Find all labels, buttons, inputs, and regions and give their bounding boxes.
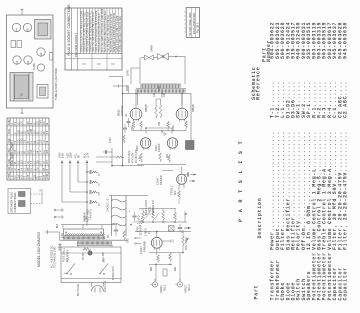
svg-text:BLK: BLK (57, 223, 59, 228)
speaker dual cone symbol (158, 53, 169, 60)
potentiometer treble (152, 212, 155, 221)
signal arrow lower right (184, 227, 191, 229)
svg-text:Description: Description (257, 198, 263, 239)
wire antenna lead top (21, 9, 23, 16)
svg-text:FUSE 2A: FUSE 2A (63, 252, 66, 262)
junction dots extra (155, 264, 157, 266)
svg-text:215: 215 (34, 129, 36, 134)
tube V2 layout circle (24, 56, 32, 64)
table dashes (82, 63, 86, 65)
tube V3a 12AX7 phase inverter (140, 138, 150, 148)
svg-text:PLUG & SOCKET CONNECTIONS: PLUG & SOCKET CONNECTIONS (67, 4, 71, 56)
resistor preamp cathode (157, 255, 160, 263)
switch SW-1 polarity (67, 264, 75, 274)
output transformer T-2 secondary winding (141, 83, 181, 85)
wire right rail (190, 93, 192, 150)
svg-text:V1: V1 (15, 60, 19, 64)
svg-text:470K: 470K (131, 125, 134, 131)
capacitor right of choke (133, 215, 137, 217)
wire screen bus (156, 98, 161, 100)
svg-text:SPEAKER PLUG: SPEAKER PLUG (10, 192, 14, 213)
power transformer layout square (35, 20, 52, 40)
svg-text:5V: 5V (107, 235, 110, 238)
svg-text:TUBE & PART LOCATION: TUBE & PART LOCATION (54, 68, 58, 100)
resistor plate V3b (159, 153, 162, 162)
resistor tone right (174, 213, 177, 222)
small resistor on bus (116, 156, 124, 158)
capacitor resistor pair level 3 (89, 190, 91, 194)
svg-text:1 MEG: 1 MEG (145, 228, 148, 236)
svg-text:NO. 1: NO. 1 (164, 284, 167, 291)
wire B+ rail horizontal (123, 92, 192, 94)
svg-text:GND: GND (47, 173, 49, 178)
arrow tone right (184, 213, 188, 215)
svg-text:470K: 470K (172, 125, 175, 131)
svg-text:270: 270 (18, 139, 20, 144)
tube V3b 12AX7 phase inverter (167, 138, 177, 148)
wire driver grid stub (162, 169, 173, 171)
svg-text:PIN2: PIN2 (9, 138, 11, 144)
svg-text:PIN1: PIN1 (9, 128, 11, 134)
svg-text:GND: GND (41, 120, 43, 125)
secondary leads into box (77, 245, 79, 247)
resistor tail (168, 155, 171, 163)
tube V5 layout circle (23, 23, 31, 31)
wire preamp mid bus (149, 252, 183, 254)
wire grid drop to jack 1 (155, 264, 157, 281)
resistor right of transformer (123, 231, 126, 240)
resistor cathode V5 (185, 122, 188, 129)
junction dots rail (111, 165, 113, 167)
tube V5 6BQ5 output (176, 108, 188, 120)
resistor driver cathode (178, 191, 181, 199)
resistor in switch box (83, 248, 91, 251)
resistor screen V4 (155, 105, 158, 118)
svg-text:PILOT: PILOT (82, 252, 85, 260)
capacitor line filter (114, 229, 118, 231)
svg-text:V4: V4 (15, 28, 19, 32)
table column line (65, 53, 122, 55)
capacitor coupling V4 grid (127, 121, 131, 123)
svg-text:T-1: T-1 (81, 224, 85, 228)
dash mark near choke (139, 225, 141, 227)
svg-text:OUTPUT: OUTPUT (120, 105, 124, 116)
svg-text:INPUT: INPUT (184, 285, 188, 293)
plug and socket connections table (65, 8, 122, 70)
svg-text:MODEL 1482 CHASSIS: MODEL 1482 CHASSIS (37, 231, 41, 267)
svg-text:6BQ5: 6BQ5 (191, 104, 195, 112)
wire V3 plates (145, 128, 147, 134)
speaker connection note box (8, 189, 31, 214)
svg-text:325: 325 (18, 174, 20, 179)
wire preamp bottom bus (149, 263, 172, 265)
svg-text:BASS AMPLIFIER: BASS AMPLIFIER (192, 13, 196, 34)
svg-text:FUSE: FUSE (32, 63, 36, 70)
power transformer secondary hatch (78, 241, 112, 244)
stamp tick marks (184, 11, 185, 13)
choke L-1 right rail (125, 196, 127, 237)
wire branch 3 down (77, 161, 79, 182)
dashed leader wires (31, 193, 43, 195)
resistor tone mid (162, 212, 165, 221)
wire driver plate (181, 167, 183, 174)
capacitor resistor pair level 2 (89, 180, 91, 184)
svg-text:VOL 1 MEG: VOL 1 MEG (185, 237, 188, 250)
wire tone bus upper (139, 208, 176, 210)
wire from socket table down (109, 76, 123, 78)
svg-text:Filter, 20-20-20-475V.........: Filter, 20-20-20-475V........... (343, 131, 349, 250)
wire speaker stub left (131, 67, 140, 69)
capacitor grid feed V4 (123, 127, 127, 129)
small component above preamp 1 (169, 226, 175, 232)
small component above preamp 2 (178, 227, 182, 229)
svg-text:470K: 470K (109, 137, 112, 143)
signal arrow top right (185, 227, 191, 229)
svg-text:100: 100 (158, 121, 161, 126)
wire tone vertical right (184, 211, 186, 222)
svg-text:TO CHASSIS GND: TO CHASSIS GND (54, 246, 57, 268)
svg-text:C2 ABC....: C2 ABC.... (343, 81, 349, 118)
decoupling bus (112, 165, 144, 167)
svg-text:100: 100 (153, 92, 156, 97)
svg-text:P A R T S L I S T: P A R T S L I S T (238, 140, 244, 222)
svg-text:V2: V2 (26, 60, 30, 64)
svg-text:PIN7: PIN7 (9, 166, 11, 172)
svg-text:TUBE: TUBE (9, 119, 11, 126)
capacitor driver out (187, 172, 189, 176)
wire filter to preamp (133, 221, 137, 223)
svg-text:6.3V: 6.3V (62, 153, 65, 158)
svg-text:SPKR: SPKR (150, 45, 154, 52)
table title PLUG &amp; SOCKET CONNECTIONS (71, 8, 73, 70)
choke winding waves (112, 199, 127, 202)
table grid rows (79, 8, 81, 54)
svg-text:+: + (127, 210, 131, 212)
svg-text:Reference: Reference (256, 67, 262, 100)
connector arrow left 1 (56, 209, 65, 211)
power transformer primary box (64, 229, 104, 236)
wire B+ rail left vertical (128, 86, 130, 93)
pilot lamp layout circle (37, 64, 44, 71)
ground symbol left (59, 243, 61, 245)
svg-text:12AX7: 12AX7 (139, 246, 143, 254)
svg-text:945-003636: 945-003636 (343, 22, 349, 59)
svg-text:Fig. 3B L: Fig. 3B L (196, 22, 200, 33)
svg-text:Capacitor: Capacitor (343, 267, 349, 300)
svg-text:V5: V5 (26, 28, 30, 32)
wire tone bus lower (139, 221, 187, 223)
svg-text:475 V: 475 V (141, 217, 144, 224)
svg-text:60 CYCLE: 60 CYCLE (76, 283, 80, 296)
svg-text:+ 40 MFD: + 40 MFD (90, 209, 93, 220)
wire mid-left vertical (111, 148, 113, 166)
wire grid bus (134, 130, 187, 132)
resistor grid V4 left (123, 135, 125, 143)
wire preamp grid right (162, 240, 171, 242)
wire long secondary line (60, 239, 128, 241)
svg-text:325: 325 (18, 129, 20, 134)
wire above power transformer (61, 224, 117, 226)
wires in switch box (61, 252, 88, 254)
svg-text:OFF-ON: OFF-ON (102, 252, 105, 262)
wire branch 2 down (69, 161, 71, 192)
potentiometer volume (182, 236, 185, 246)
svg-text:117V.A.C.: 117V.A.C. (103, 280, 107, 292)
input jack 2 (177, 282, 182, 287)
choke L-1 left rail (111, 196, 113, 237)
capacitor can layout small rect 1 (11, 41, 16, 48)
svg-text:CHOKE L-1: CHOKE L-1 (107, 198, 110, 212)
wire left stub arrow (113, 85, 129, 87)
resistor plate V3a (140, 153, 143, 162)
svg-text:220K: 220K (136, 145, 139, 151)
wire left lead to chassis label (45, 231, 60, 233)
voltage chart columns (7, 125, 49, 127)
electrolytic can capacitor (186, 141, 195, 150)
svg-text:INPUT: INPUT (159, 285, 163, 293)
svg-text:T2: T2 (20, 93, 24, 97)
svg-text:220K: 220K (155, 145, 158, 151)
wire bus under phase inverter (137, 164, 186, 166)
tube V1 layout circle (13, 56, 21, 64)
wire speaker bus (154, 57, 158, 59)
speaker jack plug symbol (141, 57, 144, 59)
speaker plug contact 1 (19, 192, 26, 197)
capacitor between jacks (163, 269, 167, 276)
wire bottom lead (21, 108, 23, 114)
svg-text:325: 325 (34, 174, 36, 179)
tube V2b 12AX7 driver (177, 174, 187, 184)
output transformer layout square (10, 73, 33, 102)
voltage chart rows (9, 118, 11, 180)
output transformer primary winding (136, 89, 185, 93)
signal arrow right 2 (189, 180, 195, 182)
connector arrows left of preamp (136, 237, 142, 239)
output transformer core line (136, 88, 186, 90)
svg-text:10K: 10K (99, 192, 101, 196)
junction marks grid bus (161, 130, 163, 132)
svg-text:325V: 325V (70, 152, 73, 158)
title stamp box (186, 8, 199, 38)
resistor grid V4 (132, 122, 135, 129)
svg-text:PREAMP: PREAMP (143, 241, 147, 252)
svg-text:68K: 68K (174, 266, 177, 271)
switch SW-2 off-on (100, 264, 108, 274)
resistor grid V5 (167, 122, 170, 129)
power transformer winding bumps (65, 234, 105, 235)
svg-text:CONNECTIONS: CONNECTIONS (13, 192, 17, 212)
svg-text:NO. 2: NO. 2 (188, 284, 191, 291)
potentiometer tap arrow 2 (156, 213, 159, 218)
power transformer core hatch (64, 236, 105, 239)
capacitor resistor pair level 1 (89, 170, 91, 174)
potentiometer bass (142, 212, 145, 221)
junction dot choke bottom (130, 224, 132, 226)
junction dots tone (142, 221, 144, 223)
svg-text:PIN3: PIN3 (9, 148, 11, 154)
wire V4 plate (135, 93, 137, 108)
choke top line (109, 195, 148, 197)
svg-text:68K: 68K (150, 266, 153, 271)
label T-2 lead (130, 68, 132, 84)
grid stopper marks (170, 240, 172, 243)
wire branch 1 down (61, 161, 63, 202)
svg-text:50K: 50K (174, 190, 177, 195)
svg-text:6BQ5: 6BQ5 (117, 109, 121, 116)
wire plate leads from transformer (137, 93, 139, 105)
svg-text:GRN: GRN (127, 70, 130, 76)
wire left rail x122 (122, 77, 124, 166)
svg-text:PIN6: PIN6 (9, 158, 11, 164)
speaker plug contact 2 (19, 201, 26, 207)
resistor grid V4b (140, 122, 143, 129)
svg-text:6BQ5: 6BQ5 (144, 104, 148, 112)
junction dots branches (86, 181, 88, 183)
capacitor can layout small rect 2 (17, 41, 22, 48)
fuse holder tab (50, 53, 53, 61)
svg-text:+ B+: + B+ (139, 155, 142, 161)
volume tap arrow (186, 238, 189, 243)
signal arrow right 1 (190, 174, 196, 176)
tube V4 layout circle (12, 23, 20, 31)
parts list rows (270, 22, 276, 301)
filter capacitor layout (37, 85, 48, 99)
svg-text:PIN8: PIN8 (9, 173, 11, 179)
tube V4 6BQ5 output (130, 108, 142, 120)
svg-text:5Y3: 5Y3 (126, 238, 130, 243)
tube V1 12AX7 preamp (151, 237, 162, 248)
connector arrow left 2 (56, 216, 65, 218)
power control box (61, 247, 121, 283)
voltage chart table (7, 118, 49, 180)
svg-text:325V: 325V (158, 85, 161, 91)
wire preamp plate up (156, 232, 158, 238)
pilot lamp (88, 251, 92, 255)
potentiometer tap arrow 1 (146, 213, 149, 218)
svg-text:5V: 5V (78, 155, 81, 158)
svg-text:GND: GND (31, 129, 33, 134)
svg-text:BASS CONT: BASS CONT (144, 200, 148, 215)
svg-text:GND: GND (22, 138, 24, 143)
wire mid-left horizontals (103, 151, 112, 153)
svg-text:22K: 22K (166, 153, 169, 158)
chassis component-layout box (7, 15, 54, 108)
tube V3 layout circle (37, 48, 45, 56)
svg-text:SILVERTONE 1482: SILVERTONE 1482 (188, 12, 192, 36)
svg-text:Part: Part (254, 285, 260, 300)
capacitor resistor pair level 4 (89, 200, 91, 204)
wire preamp cathode (156, 248, 158, 255)
svg-text:.02 600V: .02 600V (140, 226, 143, 236)
wire V5 plate (181, 93, 183, 108)
wire drop to jack 2 (179, 253, 181, 282)
svg-text:PLATE 215V RED PIN 6 V2 RED: PLATE 215V RED PIN 6 V2 RED (119, 16, 122, 52)
diode arrow mark (84, 216, 87, 220)
svg-text:320V: 320V (126, 85, 129, 91)
resistor screen V5 (159, 105, 162, 118)
svg-text:12AX7: 12AX7 (156, 177, 160, 185)
svg-text:V3: V3 (39, 52, 43, 56)
wire bottom bus (135, 231, 191, 233)
svg-text:INTERLOCK: INTERLOCK (112, 266, 115, 280)
svg-text:+: + (39, 189, 41, 193)
svg-text:100: 100 (163, 92, 166, 97)
svg-text:6.3V: 6.3V (61, 233, 64, 238)
wire output transformer secondary leads (139, 58, 141, 85)
svg-text:117V: 117V (87, 152, 90, 158)
junction dots phase inverter (145, 127, 147, 129)
ac line cord plug (91, 283, 93, 287)
tube V2b pins (178, 185, 180, 189)
wire branch 4 main down (86, 161, 88, 226)
svg-text:DRIVER: DRIVER (159, 175, 163, 185)
input jack 1 (152, 282, 157, 287)
resistor preamp right (169, 253, 172, 262)
